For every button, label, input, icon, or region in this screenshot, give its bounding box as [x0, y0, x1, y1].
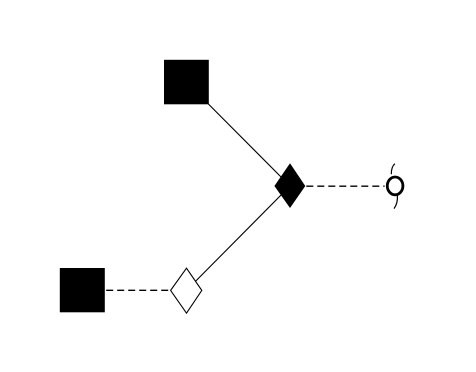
wire: solid bond from top square to center diamond: [187, 82, 291, 186]
wire: dashed bond from center diamond to circle: [306, 185, 384, 187]
squiggle below circle: [394, 195, 397, 208]
wire: dashed bond from left square to open diamond: [106, 289, 170, 291]
node D1: center filled diamond: [274, 163, 305, 208]
wire: solid bond from center diamond to open diamond: [187, 186, 291, 290]
node S1: top filled square: [164, 60, 209, 105]
node D2: open diamond: [171, 268, 202, 313]
squiggle above circle: [391, 164, 395, 175]
node S2: left filled square: [60, 268, 105, 312]
node C1: open circle (reducing end): [387, 177, 403, 195]
